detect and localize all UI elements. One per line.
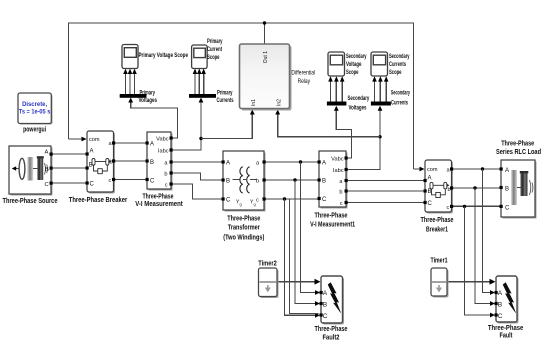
svg-text:Primary Voltage Scope: Primary Voltage Scope bbox=[139, 52, 189, 59]
wire VI1 c to breaker1 C bbox=[346, 202, 425, 204]
winding 2 bbox=[247, 167, 250, 193]
svg-text:Secondary: Secondary bbox=[348, 95, 370, 102]
wire fault1 phase B drop bbox=[475, 188, 494, 304]
three-phase V-I measurement1 bbox=[310, 151, 355, 228]
demux bus: secondary currents bbox=[371, 90, 410, 107]
svg-text:A: A bbox=[505, 168, 509, 174]
wire trip to breaker1 com bbox=[414, 168, 424, 170]
svg-text:Scope: Scope bbox=[389, 69, 402, 76]
svg-text:Three-Phase: Three-Phase bbox=[421, 217, 454, 224]
powergui block bbox=[18, 93, 53, 133]
wire breaker a to VI A bbox=[114, 142, 148, 144]
svg-text:C: C bbox=[498, 313, 503, 320]
svg-text:Three-Phase: Three-Phase bbox=[315, 326, 348, 333]
svg-text:Three-Phase: Three-Phase bbox=[488, 325, 524, 332]
node fault2 a tap bbox=[299, 160, 302, 163]
wire fault2 phase A drop bbox=[301, 162, 319, 293]
svg-text:In1: In1 bbox=[251, 99, 257, 106]
node trip junction bbox=[263, 21, 266, 24]
svg-text:g: g bbox=[240, 202, 242, 207]
three-phase breaker1 bbox=[421, 160, 454, 234]
wire demux2 to scope2 bbox=[194, 71, 196, 95]
svg-text:Vabc: Vabc bbox=[156, 137, 169, 143]
svg-text:B: B bbox=[322, 179, 326, 185]
svg-text:Three-Phase: Three-Phase bbox=[315, 213, 348, 220]
svg-text:Currents: Currents bbox=[389, 61, 406, 68]
wire fault1 phase C drop bbox=[465, 206, 494, 315]
source icon coil bar bbox=[37, 157, 43, 180]
svg-text:B: B bbox=[323, 301, 328, 308]
wire Iabc primary to demux bbox=[171, 99, 201, 150]
wire VI c to transformer C bbox=[171, 184, 223, 199]
wire demux1 to scope1 bbox=[125, 71, 127, 95]
svg-text:B: B bbox=[505, 187, 509, 193]
wire fault2 phase B drop bbox=[295, 180, 319, 304]
svg-text:Series RLC Load: Series RLC Load bbox=[496, 149, 541, 156]
node fault1 a tap bbox=[481, 167, 484, 170]
wire source B to breaker B bbox=[51, 167, 87, 169]
svg-text:Primary: Primary bbox=[217, 89, 233, 96]
svg-text:C: C bbox=[323, 313, 328, 320]
breaker ports bbox=[86, 152, 89, 155]
three-phase source bbox=[3, 146, 58, 205]
svg-text:C: C bbox=[505, 206, 510, 212]
three-phase fault bbox=[488, 276, 524, 340]
svg-text:C: C bbox=[226, 198, 231, 204]
svg-text:Relay: Relay bbox=[298, 78, 311, 85]
source icon AC circle bbox=[19, 158, 25, 179]
three-phase series RLC load bbox=[496, 141, 541, 219]
svg-text:A: A bbox=[150, 142, 154, 148]
three-phase fault2 bbox=[315, 276, 348, 342]
wire timer1 to fault1 control bbox=[447, 281, 494, 283]
lightning bolt bbox=[503, 283, 516, 313]
demux bus: primary voltages bbox=[120, 89, 158, 104]
load icon bbox=[511, 170, 517, 205]
timer2 bbox=[258, 261, 278, 298]
svg-text:V-I Measurement: V-I Measurement bbox=[135, 201, 183, 208]
svg-text:Voltages: Voltages bbox=[349, 105, 367, 112]
svg-text:Breaker1: Breaker1 bbox=[426, 227, 448, 234]
timer1 bbox=[431, 258, 449, 298]
wire source C to breaker C bbox=[51, 182, 87, 184]
wire fault2 phase C drop second branch bbox=[290, 199, 319, 314]
op-amp style subsystem: differential relay bbox=[240, 44, 316, 111]
demux bus: secondary voltages bbox=[327, 95, 370, 112]
svg-text:A: A bbox=[322, 161, 326, 167]
svg-text:Timer2: Timer2 bbox=[258, 261, 277, 268]
svg-text:B: B bbox=[45, 167, 49, 173]
svg-text:Iabc: Iabc bbox=[158, 149, 169, 155]
svg-text:In2: In2 bbox=[277, 99, 283, 106]
source icon impedance bar bbox=[27, 157, 33, 181]
scope: primary current scope bbox=[192, 38, 223, 69]
wire transformer c to VI1 C bbox=[264, 198, 319, 200]
node fault2 c tap bbox=[283, 197, 286, 200]
svg-text:Three-Phase Source: Three-Phase Source bbox=[3, 198, 58, 205]
svg-text:Three-Phase Breaker: Three-Phase Breaker bbox=[69, 197, 128, 204]
svg-text:A: A bbox=[45, 150, 49, 156]
wire VI1 b to breaker1 B bbox=[346, 190, 425, 192]
svg-text:Secondary: Secondary bbox=[389, 53, 410, 60]
svg-text:Out 1: Out 1 bbox=[263, 51, 269, 63]
svg-text:A: A bbox=[498, 290, 503, 297]
svg-text:Iabc: Iabc bbox=[333, 168, 344, 174]
node fault1 b tap bbox=[473, 186, 476, 189]
svg-text:C: C bbox=[322, 197, 327, 203]
breaker1 icon bbox=[430, 182, 450, 197]
svg-text:C: C bbox=[428, 201, 433, 207]
svg-text:Transformer: Transformer bbox=[228, 225, 260, 232]
wire Vabc primary to demux bbox=[131, 99, 178, 138]
svg-text:com: com bbox=[427, 167, 438, 173]
wire fault2 phase C drop bbox=[285, 199, 319, 315]
svg-text:c: c bbox=[256, 198, 259, 204]
wire transformer b to VI1 B bbox=[264, 179, 319, 181]
svg-text:com: com bbox=[89, 137, 100, 143]
svg-text:Current: Current bbox=[207, 46, 222, 53]
svg-text:Ts = 1e-05 s: Ts = 1e-05 s bbox=[19, 109, 51, 116]
demux bus: primary currents bbox=[189, 89, 234, 104]
node fault2 b tap bbox=[293, 178, 296, 181]
svg-text:Secondary: Secondary bbox=[346, 53, 367, 60]
svg-text:Three-Phase: Three-Phase bbox=[143, 194, 174, 201]
svg-text:Differential: Differential bbox=[291, 70, 315, 77]
wire Iabc secondary to demux bbox=[346, 107, 380, 170]
svg-text:Scope: Scope bbox=[346, 69, 359, 76]
breaker icon bbox=[92, 159, 112, 174]
svg-text:Three-Phase: Three-Phase bbox=[227, 216, 260, 223]
svg-text:Voltages: Voltages bbox=[139, 97, 158, 104]
wire Iabc secondary to relay In2 bbox=[278, 111, 380, 137]
svg-text:V-I Measurement1: V-I Measurement1 bbox=[310, 221, 355, 228]
svg-text:B: B bbox=[498, 301, 503, 308]
svg-text:Secondary: Secondary bbox=[391, 90, 410, 97]
wire breaker b to VI B bbox=[114, 160, 148, 162]
node Iabc secondary tap bbox=[378, 135, 381, 138]
svg-text:C: C bbox=[90, 182, 95, 188]
svg-text:A: A bbox=[428, 176, 432, 182]
scope: secondary voltage scope bbox=[328, 52, 367, 76]
wire transformer a to VI1 A bbox=[264, 161, 319, 163]
svg-text:powergui: powergui bbox=[23, 126, 46, 133]
svg-text:A: A bbox=[226, 161, 230, 167]
svg-text:Discrete,: Discrete, bbox=[22, 101, 47, 108]
wire breaker1 b to load B bbox=[452, 187, 502, 189]
svg-text:B: B bbox=[428, 189, 432, 195]
svg-text:Primary: Primary bbox=[140, 89, 156, 96]
wire VI1 a to breaker1 A bbox=[346, 180, 425, 182]
svg-text:Fault2: Fault2 bbox=[323, 335, 340, 342]
svg-text:A: A bbox=[90, 149, 94, 155]
svg-text:Scope: Scope bbox=[207, 54, 220, 61]
wire breaker1 a to load A bbox=[452, 168, 502, 170]
scope: secondary currents scope bbox=[371, 52, 410, 76]
wire breaker c to VI C bbox=[114, 179, 148, 181]
wire demux4 to scope4 bbox=[374, 78, 376, 102]
node Iabc primary tap bbox=[199, 137, 202, 140]
svg-text:g: g bbox=[254, 202, 256, 207]
svg-text:C: C bbox=[45, 182, 49, 188]
svg-text:A: A bbox=[323, 290, 328, 297]
svg-text:(Two Windings): (Two Windings) bbox=[223, 234, 264, 241]
svg-text:b: b bbox=[164, 172, 167, 178]
wire breaker1 c to load C bbox=[452, 205, 502, 207]
svg-text:Vabc: Vabc bbox=[331, 157, 344, 163]
svg-text:Voltage: Voltage bbox=[346, 61, 362, 68]
svg-text:c: c bbox=[340, 201, 343, 207]
wire VI a to transformer A bbox=[171, 161, 223, 163]
wire trip line top bbox=[69, 23, 414, 169]
wire relay out1 up bbox=[264, 23, 266, 44]
svg-text:Three-Phase: Three-Phase bbox=[501, 141, 534, 148]
three-phase transformer (two windings) bbox=[222, 151, 266, 241]
three-phase breaker bbox=[69, 131, 128, 204]
scope: primary voltage scope bbox=[122, 45, 188, 69]
svg-text:Currents: Currents bbox=[217, 97, 234, 104]
svg-text:c: c bbox=[109, 178, 112, 184]
wire source A to breaker A bbox=[51, 153, 87, 155]
source icon arrow bbox=[13, 168, 19, 170]
wire VI b to transformer B bbox=[171, 173, 223, 180]
svg-text:B: B bbox=[226, 179, 230, 185]
wire trip to breaker com bbox=[69, 138, 86, 140]
svg-text:Fault: Fault bbox=[500, 333, 514, 340]
svg-text:c: c bbox=[165, 183, 168, 189]
svg-text:C: C bbox=[150, 179, 155, 185]
wire Iabc primary to relay In1 bbox=[201, 111, 252, 139]
svg-text:Timer1: Timer1 bbox=[431, 258, 448, 265]
lightning bolt bbox=[328, 283, 341, 313]
three-phase V-I measurement bbox=[135, 132, 183, 208]
winding 1 bbox=[240, 167, 243, 193]
svg-text:c: c bbox=[447, 205, 450, 211]
svg-text:Currents: Currents bbox=[391, 100, 408, 107]
wire fault1 phase A drop bbox=[483, 169, 494, 293]
wire timer2 to fault2 control bbox=[277, 281, 319, 283]
svg-text:b: b bbox=[339, 190, 342, 196]
wire Vabc secondary to demux bbox=[336, 107, 351, 158]
wire demux3 to scope3 bbox=[330, 78, 332, 102]
node fault1 c tap bbox=[463, 205, 466, 208]
svg-text:Primary: Primary bbox=[207, 38, 223, 45]
svg-text:B: B bbox=[150, 160, 154, 166]
